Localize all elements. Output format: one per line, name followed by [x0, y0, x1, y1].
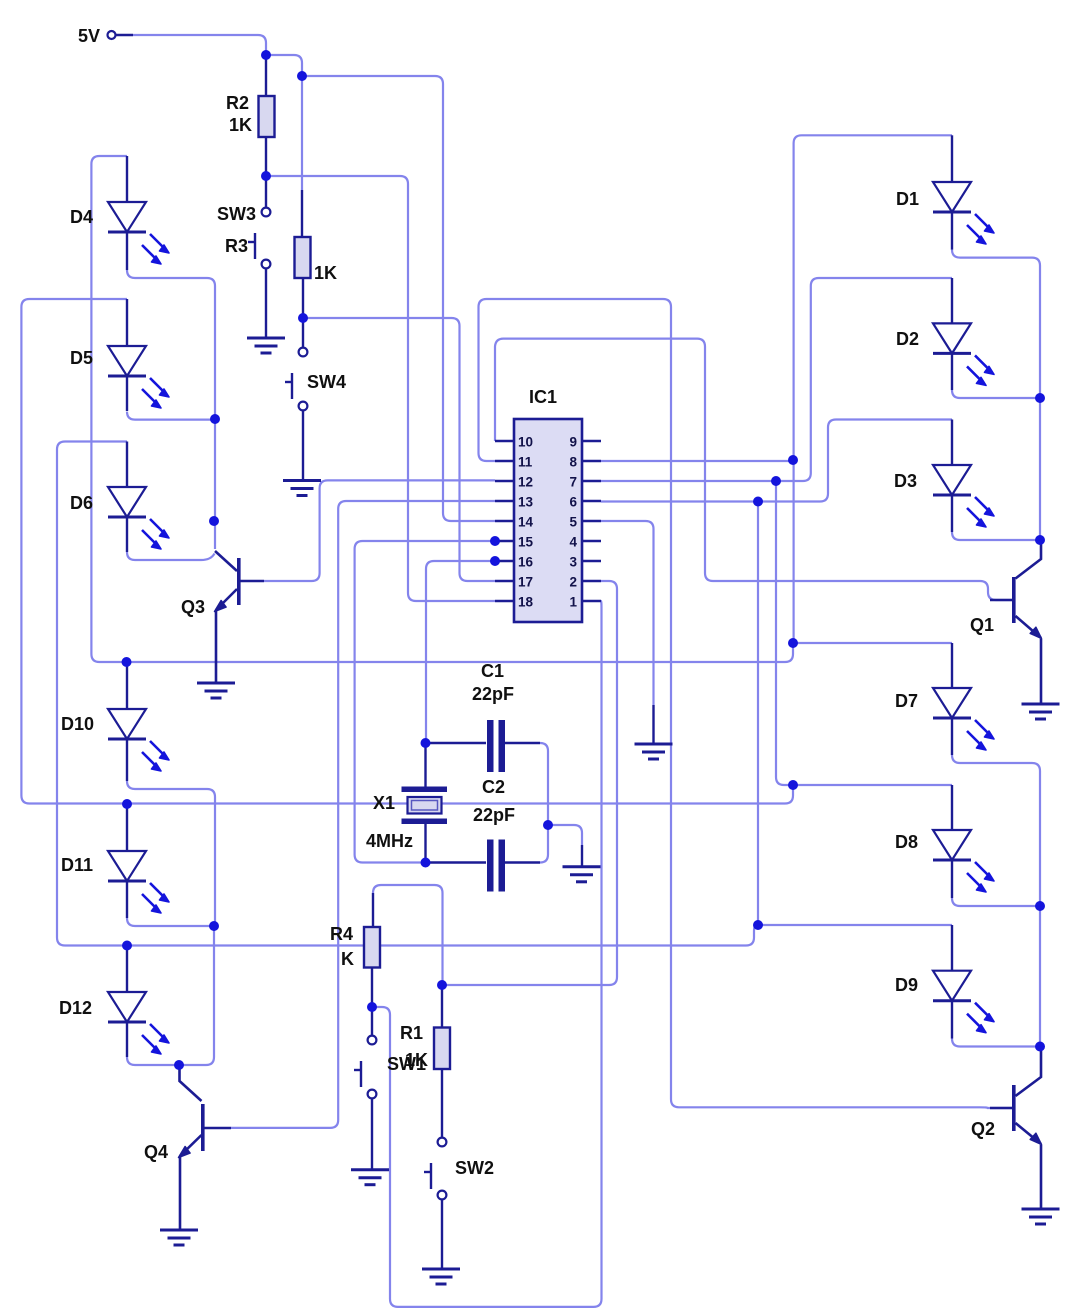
wire D4 cathode lead — [126, 232, 128, 270]
svg-text:SW3: SW3 — [217, 204, 256, 224]
wire pin6 south to D9 node — [757, 502, 759, 926]
wire SW3 leads — [265, 176, 267, 337]
node pin7 — [771, 476, 781, 486]
IC1 pin stubs — [495, 441, 601, 601]
wire R3 leads — [302, 190, 303, 348]
wire 5V to node A — [133, 35, 266, 55]
svg-text:D3: D3 — [894, 471, 917, 491]
wire Q3 collector — [215, 551, 237, 571]
svg-text:D7: D7 — [895, 691, 918, 711]
wire D4 anode lead — [126, 156, 128, 202]
svg-text:R1: R1 — [400, 1023, 423, 1043]
wire 5V net to IC pin14 — [302, 76, 495, 521]
wire IC pin11 to Q2 base — [479, 299, 1013, 1108]
wire D4 cathode — [127, 270, 215, 419]
svg-text:X1: X1 — [373, 793, 395, 813]
transistor Q1 emitter arrow — [1030, 627, 1041, 638]
node C2 ground — [543, 820, 553, 830]
svg-text:7: 7 — [569, 475, 577, 490]
wire D11 cathode — [127, 918, 214, 926]
svg-text:D8: D8 — [895, 832, 918, 852]
node R3-SW4 — [298, 313, 308, 323]
svg-text:Q1: Q1 — [970, 615, 994, 635]
node D4-D5 cathodes — [210, 414, 220, 424]
wire cathode bus to Q4 — [179, 926, 214, 1065]
node R1 top — [437, 980, 447, 990]
svg-text:D10: D10 — [61, 714, 94, 734]
wire D7 anode lead — [951, 643, 953, 688]
wire oscillator ground tap — [548, 825, 582, 845]
wire D1 anode to pin8 net — [794, 135, 952, 643]
svg-text:D4: D4 — [70, 207, 93, 227]
wire D3 cathode — [952, 532, 1040, 540]
wire D7 anode — [793, 642, 952, 644]
resistor R3 — [295, 237, 311, 278]
wire IC pin7 to D2 anode — [601, 278, 952, 481]
resistor R2 — [259, 96, 275, 137]
LED D10 — [108, 709, 169, 771]
svg-text:6: 6 — [569, 495, 577, 510]
node D10-D11 cathodes — [209, 921, 219, 931]
LED D9 — [933, 971, 994, 1033]
wire Q3 emitter — [216, 589, 237, 610]
wire Q4 emitter — [180, 1135, 202, 1156]
ground Q3 — [197, 683, 235, 698]
ground IC pin5 — [635, 744, 673, 759]
node cathode bus — [209, 516, 219, 526]
LED D12 — [108, 992, 169, 1054]
transistor Q2 bar — [1012, 1085, 1016, 1131]
wire node A to node B — [266, 55, 302, 76]
wire D7 cathode — [952, 755, 1040, 906]
svg-text:D12: D12 — [59, 998, 92, 1018]
svg-text:22pF: 22pF — [472, 684, 514, 704]
svg-text:SW2: SW2 — [455, 1158, 494, 1178]
wire Q2 emitter to ground — [1040, 1145, 1043, 1208]
wire pin7 south to D8 node — [776, 481, 793, 785]
wire IC pin15 to X1 bottom — [355, 541, 495, 863]
wire IC pin6 to D3 anode — [601, 420, 952, 502]
svg-text:5V: 5V — [78, 26, 100, 46]
wire SW4 lead — [302, 411, 304, 480]
wire D11 anode lead — [126, 804, 128, 851]
wire cathode bus to Q3 — [214, 419, 216, 549]
wire D1 cathode lead — [951, 212, 953, 250]
svg-text:R4: R4 — [330, 924, 353, 944]
wire D3 cathode lead — [951, 495, 953, 532]
svg-text:8: 8 — [569, 455, 577, 470]
wire D10 anode lead — [126, 662, 128, 709]
wire node B to R3 top — [301, 76, 303, 190]
LED D1 — [933, 182, 994, 244]
svg-text:1K: 1K — [314, 263, 337, 283]
svg-text:13: 13 — [518, 495, 534, 510]
wire D10 cathode lead — [126, 739, 128, 781]
svg-text:D5: D5 — [70, 348, 93, 368]
wire D12 cathode lead — [126, 1022, 128, 1057]
node D7-D8 cathodes — [1035, 901, 1045, 911]
wire Q4 collector — [180, 1065, 202, 1101]
wire Q1 emitter to ground — [1040, 639, 1043, 703]
wire D1 cathode — [952, 250, 1040, 398]
transistor Q3 bar — [237, 558, 241, 605]
ground Q4 — [160, 1230, 198, 1245]
wire SW1 leads — [371, 1011, 373, 1169]
transistor Q2 emitter arrow — [1030, 1133, 1041, 1144]
node R4 bottom — [367, 1002, 377, 1012]
LED D4 — [108, 202, 169, 264]
node pin15 — [490, 536, 500, 546]
wire D6 cathode to Q3 collector — [127, 552, 215, 560]
wire R3 bottom to IC pin17 — [303, 318, 495, 581]
ground Q1 — [1022, 704, 1060, 719]
wire C2 leads — [430, 861, 540, 863]
svg-text:SW4: SW4 — [307, 372, 346, 392]
transistor Q4 emitter arrow — [179, 1147, 191, 1158]
wire Q2 base lead — [990, 1107, 1012, 1110]
node D9 anode — [753, 920, 763, 930]
svg-text:IC1: IC1 — [529, 387, 557, 407]
wire Q4 base lead — [204, 1127, 231, 1130]
svg-text:D11: D11 — [61, 855, 93, 875]
transistor Q3 emitter arrow — [215, 601, 227, 612]
resistor R1 — [434, 1028, 450, 1070]
wire D3 anode lead — [951, 420, 953, 466]
svg-text:C2: C2 — [482, 777, 505, 797]
node D12 cathode — [174, 1060, 184, 1070]
wire D5 cathode — [127, 412, 215, 420]
svg-text:Q4: Q4 — [144, 1142, 168, 1162]
node D11 anode — [122, 799, 132, 809]
svg-text:18: 18 — [518, 595, 534, 610]
svg-text:2: 2 — [569, 575, 577, 590]
node D3 cathode — [1035, 535, 1045, 545]
IC U1 IC1 body — [514, 419, 582, 622]
svg-text:11: 11 — [518, 455, 533, 470]
node R2-SW3 — [261, 171, 271, 181]
wire D9 anode — [758, 924, 952, 926]
wire SW2 lead — [441, 1200, 443, 1269]
wire Q1 emitter — [1016, 616, 1042, 638]
wire D5 cathode lead — [126, 376, 128, 411]
svg-text:D6: D6 — [70, 493, 93, 513]
switch SW2 — [424, 1138, 446, 1200]
svg-text:1: 1 — [569, 595, 577, 610]
node B 5V junction — [297, 71, 307, 81]
svg-text:4: 4 — [569, 535, 577, 550]
wire D2 cathode lead — [951, 353, 953, 390]
node D10 anode — [122, 657, 132, 667]
node pin16 — [490, 556, 500, 566]
wire D2 anode lead — [951, 278, 953, 323]
LED D11 — [108, 851, 169, 913]
node D8 anode — [788, 780, 798, 790]
wire D6 anode lead — [126, 442, 128, 488]
LED D2 — [933, 323, 994, 385]
wire oscillator ground stem — [581, 845, 583, 866]
svg-text:D1: D1 — [896, 189, 919, 209]
svg-text:5: 5 — [569, 515, 577, 530]
ground SW1 — [351, 1170, 389, 1185]
svg-text:K: K — [341, 949, 354, 969]
svg-text:10: 10 — [518, 435, 533, 450]
wire bus D6 D12 anodes — [57, 442, 758, 946]
ground SW2 — [422, 1269, 460, 1284]
wire D10 cathode — [127, 781, 215, 926]
svg-text:1K: 1K — [229, 115, 252, 135]
LED D3 — [933, 465, 994, 527]
wire R2 bottom to IC pin18 — [266, 176, 495, 601]
wire D6 cathode lead — [126, 517, 128, 552]
IC1 pin numbers — [518, 435, 577, 610]
switch SW1 — [354, 1036, 376, 1099]
node pin8 — [788, 455, 798, 465]
svg-text:R3: R3 — [225, 236, 248, 256]
wire R4 top to R1 top node — [373, 885, 443, 985]
svg-text:R2: R2 — [226, 93, 249, 113]
wire Q1 base lead — [990, 599, 1012, 602]
wire bus D5 D11 anodes — [21, 299, 793, 804]
LED D8 — [933, 830, 994, 892]
crystal X1 — [402, 787, 448, 825]
transistor Q1 bar — [1012, 577, 1016, 623]
wire X1 leads — [424, 743, 426, 863]
wire IC pin5 to ground — [601, 521, 654, 705]
svg-text:16: 16 — [518, 555, 534, 570]
svg-text:9: 9 — [569, 435, 577, 450]
svg-text:14: 14 — [518, 515, 534, 530]
wire D9 cathode — [952, 1039, 1040, 1047]
wire IC pin16 to X1 top — [426, 561, 495, 743]
wire Q1 collector — [1016, 540, 1042, 579]
svg-text:3: 3 — [569, 555, 577, 570]
svg-text:12: 12 — [518, 475, 533, 490]
LED D7 — [933, 688, 994, 750]
wire D12 cathode — [127, 1057, 179, 1065]
wire C1 leads — [430, 742, 540, 744]
wire D1 anode lead — [951, 135, 953, 182]
wire D8 anode — [793, 784, 952, 786]
wire Q2 emitter — [1016, 1123, 1042, 1144]
node A 5V junction — [261, 50, 271, 60]
wire IC pin13 to Q4 base — [231, 501, 495, 1128]
wire IC pin10 to Q1 base — [495, 339, 1012, 600]
wire D12 anode lead — [126, 946, 128, 993]
wire D5 anode lead — [126, 299, 128, 346]
wire R4 leads — [372, 893, 373, 1007]
wire Q3 base lead — [240, 580, 264, 583]
wire D9 anode lead — [951, 925, 953, 971]
svg-text:Q2: Q2 — [971, 1119, 995, 1139]
svg-text:15: 15 — [518, 535, 534, 550]
node X1 bottom — [421, 858, 431, 868]
node D7 anode — [788, 638, 798, 648]
node X1 top — [421, 738, 431, 748]
ground oscillator — [563, 867, 601, 882]
node D12 anode — [122, 941, 132, 951]
wire Q3 base to IC pin12 — [264, 480, 495, 581]
wire cathode bus to Q1 — [1039, 398, 1041, 540]
switch SW3 — [248, 208, 270, 269]
capacitor C1 — [487, 720, 505, 772]
svg-text:D9: D9 — [895, 975, 918, 995]
wire R1 leads — [441, 985, 443, 1138]
wire Q2 collector — [1016, 1047, 1042, 1097]
transistor Q4 bar — [201, 1104, 205, 1151]
svg-text:17: 17 — [518, 575, 533, 590]
wire C1 right to C2 right — [540, 743, 548, 863]
wire cathode bus to Q2 — [1039, 906, 1041, 1047]
svg-text:4MHz: 4MHz — [366, 831, 413, 851]
LED D6 — [108, 487, 169, 549]
ground SW3 — [247, 338, 285, 353]
switch SW4 — [285, 348, 307, 411]
svg-text:Q3: Q3 — [181, 597, 205, 617]
svg-text:C1: C1 — [481, 661, 504, 681]
wire IC pin8 — [601, 460, 793, 462]
wire IC pin2 to R1 top node — [442, 581, 617, 985]
resistor R4 — [364, 927, 380, 968]
wire IC pin5 ground stem — [652, 705, 654, 743]
wire Q3 emitter to ground — [215, 611, 218, 682]
svg-text:D2: D2 — [896, 329, 919, 349]
wire D11 cathode lead — [126, 881, 128, 918]
capacitor C2 — [487, 840, 505, 892]
LED D5 — [108, 346, 169, 408]
wire IC pin1 to R4 bottom node — [372, 601, 602, 1307]
node D1-D2 cathodes — [1035, 393, 1045, 403]
wire D7 cathode lead — [951, 718, 953, 755]
ground SW4 — [283, 481, 321, 496]
wire bus D4 D10 anodes — [91, 156, 793, 662]
svg-text:1K: 1K — [405, 1050, 428, 1070]
svg-text:22pF: 22pF — [473, 805, 515, 825]
wire D8 anode lead — [951, 785, 953, 830]
node D9 cathode — [1035, 1042, 1045, 1052]
wire R2 leads — [265, 59, 267, 176]
wire D2 cathode — [952, 390, 1040, 398]
wire D8 cathode lead — [951, 860, 953, 898]
wire D9 cathode lead — [951, 1001, 953, 1039]
wire Q4 emitter to ground — [179, 1157, 182, 1229]
power terminal 5V — [108, 31, 134, 39]
ground Q2 — [1022, 1209, 1060, 1224]
node pin6 — [753, 497, 763, 507]
wire D8 cathode — [952, 898, 1040, 906]
